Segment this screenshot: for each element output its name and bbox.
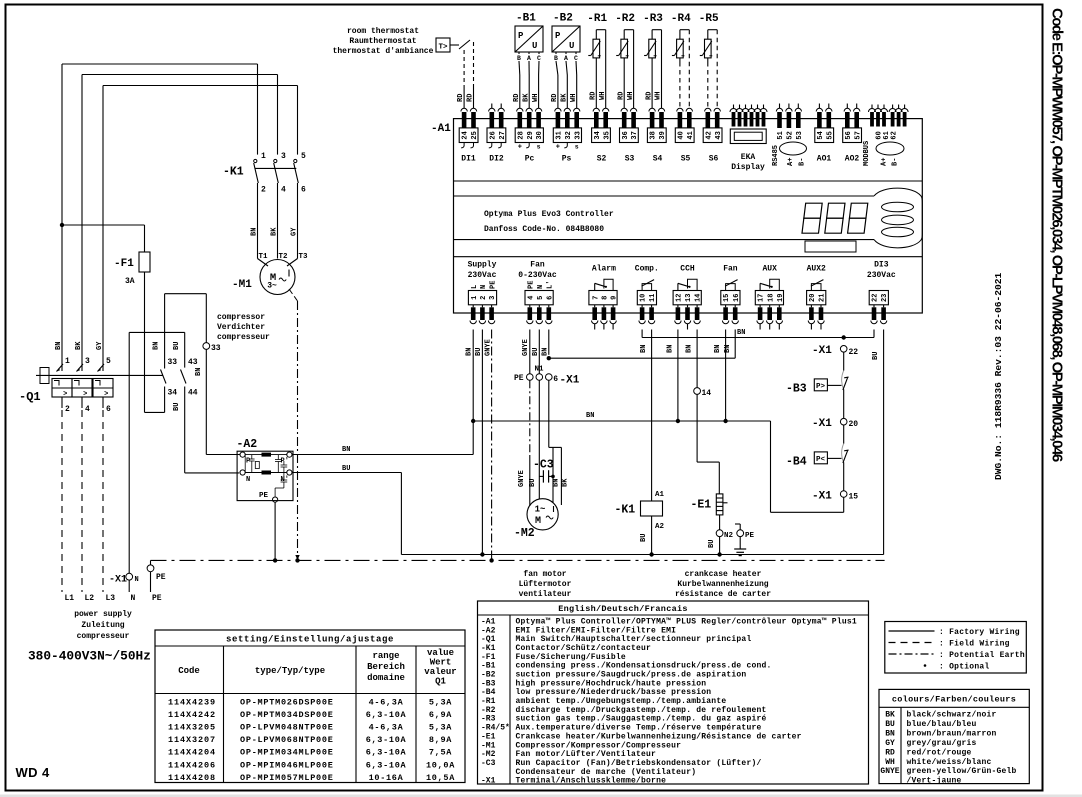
svg-text:BU: BU — [475, 348, 483, 356]
svg-text:AO2: AO2 — [845, 155, 860, 164]
svg-text:Terminal/Anschlussklemme/borne: Terminal/Anschlussklemme/borne — [516, 777, 667, 786]
svg-text:27: 27 — [499, 131, 507, 139]
svg-text:compresseur: compresseur — [217, 333, 270, 342]
svg-text:DWG.No.: 118R9336 Rev.:03 22: DWG.No.: 118R9336 Rev.:03 22-06-2021 — [993, 272, 1004, 480]
svg-text:BN: BN — [342, 446, 350, 454]
svg-text:high pressure/Hochdruck/haute: high pressure/Hochdruck/haute pression — [516, 679, 707, 688]
svg-text:11: 11 — [649, 294, 657, 302]
svg-text:31: 31 — [556, 131, 564, 139]
svg-text:4-6,3A: 4-6,3A — [369, 698, 404, 708]
svg-text:9: 9 — [611, 296, 619, 300]
svg-text:U: U — [569, 41, 574, 51]
svg-text:BN: BN — [153, 342, 161, 350]
svg-text:5: 5 — [301, 152, 306, 161]
svg-text:GY: GY — [291, 227, 299, 236]
svg-text:3: 3 — [85, 357, 90, 366]
svg-text:55: 55 — [826, 131, 834, 139]
svg-text:-A1: -A1 — [481, 618, 496, 627]
svg-text:Code: Code — [178, 666, 200, 676]
svg-text:33: 33 — [168, 358, 178, 367]
svg-text:32: 32 — [565, 131, 573, 139]
svg-text:black/schwarz/noir: black/schwarz/noir — [907, 711, 997, 720]
svg-text:N: N — [131, 594, 136, 603]
svg-text:-C3: -C3 — [533, 459, 554, 472]
svg-text:29: 29 — [527, 131, 535, 139]
svg-text:suction gas temp./Sauggastemp.: suction gas temp./Sauggastemp./temp. du … — [516, 715, 767, 724]
svg-text:L: L — [471, 285, 479, 289]
svg-text:S4: S4 — [653, 155, 663, 164]
svg-text:25: 25 — [471, 131, 479, 139]
svg-text:GNYE: GNYE — [485, 339, 493, 356]
svg-text:power supply: power supply — [74, 610, 132, 619]
svg-text:6: 6 — [301, 186, 306, 195]
svg-text:Verdichter: Verdichter — [217, 323, 265, 332]
svg-text:: Optional: : Optional — [939, 663, 990, 672]
svg-text:BU: BU — [173, 342, 181, 350]
svg-text:-K1: -K1 — [615, 504, 636, 517]
svg-text:L3: L3 — [106, 594, 116, 603]
svg-text:BN: BN — [553, 479, 561, 487]
svg-text:114X4206: 114X4206 — [168, 760, 216, 770]
svg-text:Code E:OP-MPWM057, OP-MPTM026,: Code E:OP-MPWM057, OP-MPTM026,034, OP-LP… — [1049, 8, 1066, 462]
svg-text:Alarm: Alarm — [592, 265, 616, 274]
svg-text:GY: GY — [96, 341, 104, 350]
svg-text:10: 10 — [640, 294, 648, 302]
svg-text:L1: L1 — [65, 594, 75, 603]
svg-text:BN: BN — [541, 348, 549, 356]
svg-text:-R2: -R2 — [481, 706, 496, 715]
svg-text:5: 5 — [537, 296, 545, 300]
svg-text:Condensateur de marche (Ventil: Condensateur de marche (Ventilateur) — [516, 768, 697, 777]
svg-text:14: 14 — [702, 389, 712, 398]
svg-text:P: P — [518, 31, 524, 41]
svg-text:-R4/5*: -R4/5* — [481, 724, 510, 733]
svg-text:discharge temp./Druckgastemp./: discharge temp./Druckgastemp./temp. de r… — [516, 706, 767, 715]
svg-text:-R4: -R4 — [671, 13, 691, 25]
svg-text:41: 41 — [687, 131, 695, 139]
svg-text:-F1: -F1 — [481, 653, 496, 662]
svg-text:Lüftermotor: Lüftermotor — [519, 580, 572, 589]
svg-text:Comp.: Comp. — [635, 265, 659, 274]
svg-text:Pc: Pc — [525, 155, 535, 164]
svg-text:Fan: Fan — [723, 265, 738, 274]
svg-text:BK: BK — [75, 341, 83, 350]
svg-text:P: P — [555, 31, 561, 41]
svg-text:Contactor/Schütz/contacteur: Contactor/Schütz/contacteur — [516, 644, 652, 653]
svg-text:fan motor: fan motor — [523, 570, 566, 579]
svg-text:BU: BU — [640, 534, 648, 542]
svg-text:-R3: -R3 — [643, 13, 663, 25]
svg-text:Q1: Q1 — [435, 677, 446, 687]
svg-text:1: 1 — [65, 357, 70, 366]
svg-text:Kurbelwannenheizung: Kurbelwannenheizung — [677, 580, 768, 589]
svg-text:Raumthermostat: Raumthermostat — [349, 37, 416, 46]
svg-text:4: 4 — [281, 186, 286, 195]
svg-text:U: U — [532, 41, 537, 51]
svg-text:BN: BN — [55, 342, 63, 350]
svg-text:-B4: -B4 — [481, 688, 496, 697]
svg-text:Display: Display — [731, 163, 765, 172]
svg-text:-X1: -X1 — [109, 575, 127, 586]
svg-text:C: C — [574, 55, 578, 62]
svg-text:42: 42 — [705, 131, 713, 139]
svg-text:DI2: DI2 — [489, 155, 504, 164]
svg-text:2: 2 — [480, 296, 488, 300]
svg-text:6,3-10A: 6,3-10A — [366, 710, 407, 720]
svg-text:114X4239: 114X4239 — [168, 698, 216, 708]
svg-text:39: 39 — [659, 131, 667, 139]
svg-text:A+: A+ — [787, 158, 795, 166]
svg-text:BK: BK — [885, 711, 895, 720]
svg-text:10,0A: 10,0A — [426, 760, 455, 770]
svg-text:-B3: -B3 — [481, 679, 496, 688]
svg-text:BN: BN — [714, 345, 722, 353]
svg-text:20: 20 — [849, 420, 859, 429]
svg-text:>: > — [63, 391, 67, 399]
svg-text:BN: BN — [686, 345, 694, 353]
svg-text:-A2: -A2 — [237, 438, 258, 451]
svg-text:PE: PE — [259, 492, 269, 500]
svg-text:6: 6 — [546, 296, 554, 300]
svg-text:T3: T3 — [299, 253, 309, 261]
svg-text:OP-LPVM068NTP00E: OP-LPVM068NTP00E — [240, 735, 334, 745]
svg-text:30: 30 — [536, 131, 544, 139]
svg-text:-X1: -X1 — [481, 777, 496, 786]
svg-text:21: 21 — [819, 294, 827, 302]
svg-text:-R1: -R1 — [481, 697, 496, 706]
svg-text:34: 34 — [168, 389, 178, 398]
svg-text:5: 5 — [106, 357, 111, 366]
svg-text:0-230Vac: 0-230Vac — [518, 271, 557, 280]
svg-text:valeur: valeur — [424, 667, 456, 677]
svg-text:RD: RD — [885, 748, 895, 757]
svg-text:/Vert-jaune: /Vert-jaune — [907, 777, 962, 786]
svg-text:BK: BK — [561, 93, 569, 102]
svg-text:5,3A: 5,3A — [429, 698, 452, 708]
svg-text:OP-MPIM034MLP00E: OP-MPIM034MLP00E — [240, 748, 334, 758]
svg-text:colours/Farben/couleurs: colours/Farben/couleurs — [892, 695, 1016, 705]
svg-text:crankcase heater: crankcase heater — [685, 570, 762, 579]
svg-text:10,5A: 10,5A — [426, 773, 455, 783]
svg-text:-F1: -F1 — [114, 258, 134, 270]
svg-text:B-: B- — [798, 158, 806, 166]
svg-text:EKA: EKA — [741, 153, 756, 162]
svg-text:28: 28 — [517, 131, 525, 139]
svg-text:A+: A+ — [881, 158, 889, 166]
svg-text:OP-MPTM034DSP00E: OP-MPTM034DSP00E — [240, 710, 334, 720]
svg-text:18: 18 — [767, 294, 775, 302]
svg-text:: Factory Wiring: : Factory Wiring — [939, 628, 1020, 637]
svg-text:114X3205: 114X3205 — [168, 723, 216, 733]
svg-text:P>: P> — [816, 383, 826, 391]
svg-text:WD 4: WD 4 — [16, 765, 50, 780]
svg-text:Bereich: Bereich — [367, 662, 405, 672]
svg-text:s: s — [575, 144, 579, 151]
svg-text:114X4242: 114X4242 — [168, 710, 216, 720]
svg-text:BN: BN — [737, 329, 745, 337]
svg-text:résistance de carter: résistance de carter — [675, 590, 771, 599]
svg-text:Run Capacitor (Fan)/Betriebsko: Run Capacitor (Fan)/Betriebskondensator … — [516, 759, 762, 768]
svg-text:-E1: -E1 — [481, 732, 496, 741]
svg-text:N: N — [480, 285, 488, 289]
svg-text:low pressure/Niederdruck/basse: low pressure/Niederdruck/basse pression — [516, 688, 712, 697]
svg-text:114X4208: 114X4208 — [168, 773, 216, 783]
svg-text:PE: PE — [156, 573, 166, 582]
svg-text:BN: BN — [640, 345, 648, 353]
svg-text:12: 12 — [676, 294, 684, 302]
svg-text:-A1: -A1 — [431, 123, 451, 135]
svg-text:-X1: -X1 — [812, 490, 832, 502]
svg-text:GNYE: GNYE — [880, 767, 899, 776]
svg-text:A: A — [564, 55, 568, 62]
svg-text:Ps: Ps — [562, 155, 572, 164]
svg-text:24: 24 — [462, 131, 470, 139]
svg-text:-X1: -X1 — [812, 345, 832, 357]
svg-text:26: 26 — [489, 131, 497, 139]
svg-text:6: 6 — [553, 375, 558, 384]
svg-text:33: 33 — [574, 131, 582, 139]
svg-text:RD: RD — [590, 92, 598, 100]
svg-text:54: 54 — [817, 131, 825, 139]
svg-text:13: 13 — [685, 294, 693, 302]
svg-text:N: N — [537, 285, 545, 289]
svg-text:: Field Wiring: : Field Wiring — [939, 640, 1010, 649]
svg-text:Supply: Supply — [468, 261, 497, 270]
svg-text:44: 44 — [188, 389, 198, 398]
svg-text:-C3: -C3 — [481, 759, 496, 768]
svg-text:Main Switch/Hauptschalter/sect: Main Switch/Hauptschalter/sectionneur pr… — [516, 635, 752, 644]
svg-text:GY: GY — [885, 739, 895, 748]
svg-text:230Vac: 230Vac — [468, 271, 497, 280]
svg-text:38: 38 — [650, 131, 658, 139]
svg-text:RD: RD — [551, 94, 559, 102]
svg-text:BK: BK — [562, 478, 570, 487]
svg-text:-B4: -B4 — [786, 456, 807, 469]
svg-text:PE: PE — [528, 281, 536, 289]
svg-text:value: value — [427, 648, 454, 658]
svg-text:compressor: compressor — [217, 313, 265, 322]
svg-text:-M1: -M1 — [232, 279, 252, 291]
svg-text:BU: BU — [342, 465, 350, 473]
svg-text:Fan motor/Lüfter/Ventilateur: Fan motor/Lüfter/Ventilateur — [516, 750, 657, 759]
svg-text:grey/grau/gris: grey/grau/gris — [907, 739, 977, 748]
svg-text:37: 37 — [631, 131, 639, 139]
svg-text:-K1: -K1 — [223, 166, 244, 179]
svg-text:green-yellow/Grün-Gelb: green-yellow/Grün-Gelb — [907, 767, 1017, 776]
svg-text:T>: T> — [438, 44, 448, 52]
svg-text:5,3A: 5,3A — [429, 723, 452, 733]
svg-text:40: 40 — [678, 131, 686, 139]
svg-text:RD: RD — [617, 92, 625, 100]
svg-text:type/Typ/type: type/Typ/type — [255, 666, 325, 676]
svg-text:6,3-10A: 6,3-10A — [366, 760, 407, 770]
svg-text:-M1: -M1 — [481, 741, 496, 750]
svg-text:33: 33 — [211, 344, 221, 353]
svg-text:PE: PE — [489, 281, 497, 289]
svg-text:-R2: -R2 — [615, 13, 635, 25]
svg-text:thermostat d'ambiance: thermostat d'ambiance — [333, 47, 434, 56]
svg-text:1: 1 — [261, 152, 266, 161]
svg-text:-R3: -R3 — [481, 715, 496, 724]
svg-text:BN: BN — [251, 228, 259, 236]
svg-text:+: + — [556, 144, 560, 152]
svg-text:4-6,3A: 4-6,3A — [369, 723, 404, 733]
svg-text:56: 56 — [845, 131, 853, 139]
svg-text:WH: WH — [599, 92, 607, 100]
svg-text:BK: BK — [522, 93, 530, 102]
svg-text:OP-LPVM048NTP00E: OP-LPVM048NTP00E — [240, 723, 334, 733]
svg-text:P<: P< — [816, 456, 826, 464]
svg-text:setting/Einstellung/ajustage: setting/Einstellung/ajustage — [226, 635, 394, 645]
svg-text:B: B — [554, 55, 558, 62]
svg-text:-R1: -R1 — [587, 13, 607, 25]
svg-text:1~: 1~ — [535, 505, 546, 515]
svg-text:-K1: -K1 — [481, 644, 496, 653]
svg-text:BN: BN — [724, 345, 732, 353]
svg-text:DI1: DI1 — [461, 155, 476, 164]
svg-text:17: 17 — [758, 294, 766, 302]
svg-text:-B2: -B2 — [481, 671, 496, 680]
svg-text:P': P' — [281, 458, 289, 466]
svg-text:brown/braun/marron: brown/braun/marron — [907, 729, 997, 738]
svg-text:3~: 3~ — [267, 282, 277, 291]
svg-text:English/Deutsch/Francais: English/Deutsch/Francais — [558, 604, 688, 614]
svg-text:2: 2 — [261, 186, 266, 195]
svg-text:room thermostat: room thermostat — [347, 27, 419, 36]
svg-text:-Q1: -Q1 — [19, 390, 41, 404]
svg-text:16: 16 — [733, 294, 741, 302]
svg-text:-M2: -M2 — [514, 527, 535, 540]
svg-text:-M2: -M2 — [481, 750, 496, 759]
svg-text:ventilateur: ventilateur — [519, 590, 572, 599]
svg-text:BN: BN — [195, 368, 203, 376]
svg-text:Zuleitung: Zuleitung — [81, 621, 124, 630]
svg-text:23: 23 — [881, 294, 889, 302]
svg-text:19: 19 — [777, 294, 785, 302]
svg-text:BU: BU — [173, 403, 181, 411]
svg-text:RS485: RS485 — [772, 145, 780, 166]
svg-text:L': L' — [547, 281, 555, 289]
svg-text:RD: RD — [457, 94, 465, 102]
svg-text:52: 52 — [787, 131, 795, 139]
svg-text:-Q1: -Q1 — [481, 635, 496, 644]
svg-text:BN: BN — [466, 348, 474, 356]
svg-text:-B2: -B2 — [553, 13, 573, 25]
svg-text:6,3-10A: 6,3-10A — [366, 735, 407, 745]
svg-text:-E1: -E1 — [691, 499, 712, 512]
svg-text:Fuse/Sicherung/Fusible: Fuse/Sicherung/Fusible — [516, 653, 626, 662]
svg-text:>: > — [83, 391, 87, 399]
svg-text:4: 4 — [85, 405, 90, 414]
svg-text:blue/blau/bleu: blue/blau/bleu — [907, 720, 977, 729]
svg-text:WH: WH — [655, 92, 663, 100]
svg-text:AUX2: AUX2 — [807, 265, 826, 274]
svg-text:7: 7 — [592, 296, 600, 300]
svg-text:15: 15 — [849, 492, 859, 501]
svg-text:PE: PE — [152, 594, 162, 603]
svg-text:RD: RD — [513, 94, 521, 102]
svg-text:DI3: DI3 — [874, 261, 889, 270]
svg-text:53: 53 — [796, 131, 804, 139]
svg-text:Wert: Wert — [430, 658, 452, 668]
svg-text:Optyma Plus Evo3 Controller: Optyma Plus Evo3 Controller — [484, 210, 614, 219]
svg-text:N1: N1 — [535, 366, 545, 374]
svg-text:43: 43 — [715, 131, 723, 139]
svg-text:L2: L2 — [85, 594, 95, 603]
svg-text:S3: S3 — [625, 155, 635, 164]
svg-text:red/rot/rouge: red/rot/rouge — [907, 748, 972, 757]
svg-text:BN: BN — [667, 345, 675, 353]
svg-text:S2: S2 — [597, 155, 607, 164]
svg-text:OP-MPTM026DSP00E: OP-MPTM026DSP00E — [240, 698, 334, 708]
svg-text:43: 43 — [188, 358, 198, 367]
svg-text:range: range — [372, 651, 399, 661]
svg-text:1: 1 — [471, 296, 479, 300]
svg-text:BU: BU — [708, 540, 716, 548]
svg-text:BU: BU — [532, 348, 540, 356]
svg-text:8,9A: 8,9A — [429, 735, 452, 745]
svg-text:3: 3 — [281, 152, 286, 161]
svg-text:A1: A1 — [655, 491, 665, 499]
svg-text:N: N — [135, 576, 139, 584]
svg-text:+: + — [518, 144, 522, 152]
svg-text:Aux.temperature/diverse Temp./: Aux.temperature/diverse Temp./réserve te… — [516, 724, 762, 733]
svg-text:BN: BN — [586, 412, 594, 420]
svg-text:PE: PE — [745, 532, 755, 540]
svg-text:S6: S6 — [709, 155, 719, 164]
svg-text:OP-MPIM046MLP00E: OP-MPIM046MLP00E — [240, 760, 334, 770]
svg-text:A2: A2 — [655, 523, 665, 531]
svg-text:380-400V3N~/50Hz: 380-400V3N~/50Hz — [28, 649, 151, 664]
svg-text:domaine: domaine — [367, 673, 405, 683]
svg-text:4: 4 — [527, 296, 535, 300]
svg-text:114X4204: 114X4204 — [168, 748, 216, 758]
svg-text:BU: BU — [529, 479, 537, 487]
svg-text:ambient temp./Umgebungstemp./t: ambient temp./Umgebungstemp./temp.ambian… — [516, 697, 727, 706]
svg-text:: Potential Earth: : Potential Earth — [939, 651, 1025, 660]
svg-text:-A2: -A2 — [481, 626, 496, 635]
svg-text:BU: BU — [872, 352, 880, 360]
svg-text:-R5: -R5 — [699, 13, 719, 25]
svg-text:Optyma™ Plus Controller/OPTYMA: Optyma™ Plus Controller/OPTYMA™ PLUS Reg… — [516, 618, 857, 627]
svg-text:white/weiss/blanc: white/weiss/blanc — [907, 758, 992, 767]
svg-text:AO1: AO1 — [817, 155, 832, 164]
svg-text:N: N — [246, 476, 250, 484]
svg-text:7,5A: 7,5A — [429, 748, 452, 758]
svg-text:BN: BN — [885, 729, 895, 738]
svg-text:N2: N2 — [724, 532, 734, 540]
svg-text:EMI Filter/EMI-Filter/Filtre E: EMI Filter/EMI-Filter/Filtre EMI — [516, 626, 677, 635]
svg-text:57: 57 — [854, 131, 862, 139]
svg-text:suction pressure/Saugdruck/pre: suction pressure/Saugdruck/press.de aspi… — [516, 671, 747, 680]
svg-text:WH: WH — [570, 94, 578, 102]
svg-text:6,9A: 6,9A — [429, 710, 452, 720]
svg-text:PE: PE — [514, 374, 524, 383]
svg-text:-X1: -X1 — [812, 418, 832, 430]
svg-text:14: 14 — [695, 294, 703, 302]
svg-text:Danfoss Code-No. 084B8080: Danfoss Code-No. 084B8080 — [484, 225, 604, 234]
svg-text:WH: WH — [885, 758, 895, 767]
svg-text:3A: 3A — [125, 277, 135, 286]
svg-text:BU: BU — [885, 720, 895, 729]
svg-text:36: 36 — [622, 131, 630, 139]
svg-text:BK: BK — [271, 227, 279, 236]
svg-text:AUX: AUX — [762, 265, 777, 274]
svg-text:M: M — [535, 516, 541, 527]
svg-text:WH: WH — [627, 92, 635, 100]
svg-text:3: 3 — [489, 296, 497, 300]
svg-text:A: A — [527, 55, 531, 62]
